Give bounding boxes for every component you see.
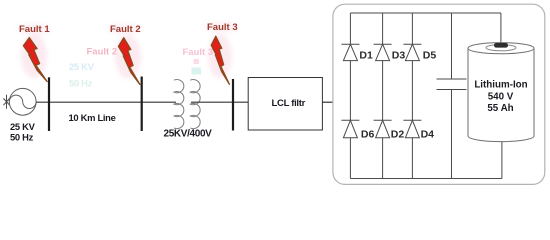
wire from LCL filter to converter block xyxy=(322,101,333,103)
battery negative stem xyxy=(501,142,503,179)
battery BT1 body xyxy=(468,43,534,142)
diode D3 xyxy=(374,44,392,60)
svg-text:50 Hz: 50 Hz xyxy=(10,132,34,143)
svg-text:540 V: 540 V xyxy=(488,91,514,102)
capacitor C1 plates xyxy=(437,79,467,90)
svg-text:55 Ah: 55 Ah xyxy=(487,103,513,114)
bus bar B2 xyxy=(141,77,143,132)
wire from transformer to LCL filter xyxy=(191,101,248,103)
svg-text:Fault 2: Fault 2 xyxy=(87,46,118,57)
diode D5 xyxy=(403,44,421,60)
svg-text:Fault 2: Fault 2 xyxy=(110,24,141,35)
leg 1 wire xyxy=(349,13,351,179)
svg-text:50 Hz: 50 Hz xyxy=(69,78,93,89)
converter block rounded frame xyxy=(333,4,545,184)
battery positive stem xyxy=(500,13,502,44)
bottom DC rail xyxy=(350,178,502,180)
svg-text:Lithium-Ion: Lithium-Ion xyxy=(474,79,527,90)
svg-text:Fault 1: Fault 1 xyxy=(19,24,50,35)
transformer T1 primary winding xyxy=(174,80,184,129)
fault bolt F3 xyxy=(211,36,229,84)
fault bolt F2 xyxy=(118,38,139,85)
diode D6 xyxy=(341,120,359,138)
svg-text:D1: D1 xyxy=(359,50,373,62)
battery terminal nub xyxy=(494,43,508,48)
svg-text:25 KV: 25 KV xyxy=(10,121,36,132)
capacitor C1 leg xyxy=(451,13,453,179)
AC sine wave xyxy=(9,95,36,108)
diode D2 xyxy=(374,120,392,138)
top DC rail xyxy=(350,12,501,14)
ghost artifact smudges in LCL box xyxy=(257,83,270,94)
wire from source to transformer xyxy=(36,101,176,103)
ghost artifact smudges near transformer xyxy=(194,59,200,64)
svg-text:Fault 3: Fault 3 xyxy=(207,22,238,33)
transformer T1 secondary winding xyxy=(190,80,200,129)
svg-text:D2: D2 xyxy=(391,129,405,141)
svg-text:25KV/400V: 25KV/400V xyxy=(164,128,213,139)
svg-text:D3: D3 xyxy=(392,50,406,62)
svg-text:D5: D5 xyxy=(423,50,437,62)
bus bar B1 xyxy=(48,77,50,131)
diode D1 xyxy=(341,44,359,60)
svg-text:25 KV: 25 KV xyxy=(69,61,95,72)
jpeg halo artifacts xyxy=(17,22,239,79)
svg-text:D4: D4 xyxy=(421,129,435,141)
leg 2 wire xyxy=(382,13,384,179)
battery rim xyxy=(486,45,516,51)
svg-text:10 Km Line: 10 Km Line xyxy=(69,112,116,123)
LCL filter box xyxy=(248,78,322,131)
bus bar B3 xyxy=(232,79,234,131)
diode D4 xyxy=(403,120,421,138)
svg-text:D6: D6 xyxy=(361,129,375,141)
source terminal symbol xyxy=(3,95,9,109)
svg-text:LCL filtr: LCL filtr xyxy=(272,98,306,109)
svg-text:Fault 3: Fault 3 xyxy=(183,47,214,58)
AC source U1 circle xyxy=(9,88,36,115)
leg 3 wire xyxy=(411,13,413,179)
fault bolt F1 xyxy=(23,38,47,82)
